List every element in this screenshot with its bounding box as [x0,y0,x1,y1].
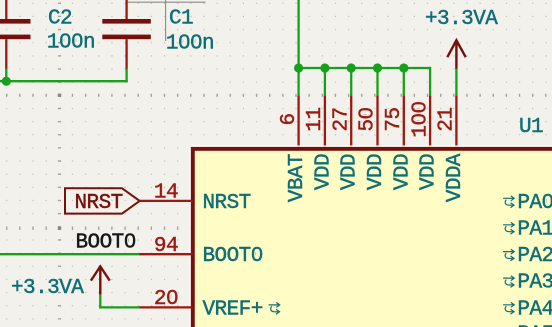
svg-text:VDD: VDD [365,154,388,190]
svg-text:50: 50 [357,107,380,131]
op-amp U1 body [193,149,552,327]
svg-text:20: 20 [154,288,178,311]
pin 6 line [297,96,299,148]
svg-text:75: 75 [383,107,406,131]
svg-text:11: 11 [304,107,327,131]
junction dot at (6.3,81.2) [2,77,11,86]
grid origin square (59.5,95.3) [58,94,61,97]
pin 94 line [139,253,192,255]
svg-text:NRST: NRST [75,192,123,215]
svg-text:VREF+: VREF+ [203,298,263,321]
svg-text:PA3: PA3 [517,272,552,295]
pin 27 line [350,96,352,148]
grid axis tick row y=95.3 [6,94,552,97]
pin VREF+ bidi glyph [269,303,280,315]
pin 100 line [429,96,431,148]
pin 20 line [139,306,192,308]
wire green vertical below C2 [5,69,7,82]
wire green drop pin11 [324,68,326,97]
wire green drop pin6 [297,68,299,97]
junction dot pin50 [373,63,382,72]
svg-text:BOOT0: BOOT0 [203,245,263,268]
svg-text:VDDA: VDDA [444,153,467,202]
global label NRST [65,188,140,215]
svg-text:100n: 100n [166,32,214,55]
grid axis dash column x=59.5 [58,3,61,327]
svg-text:+3.3VA: +3.3VA [11,277,84,300]
wire green VREF+ [99,306,140,308]
svg-text:VDD: VDD [391,154,414,190]
grid origin square (59.5,228.3) [58,227,61,230]
pin 75 line [403,96,405,148]
junction dot pin6 [294,63,303,72]
svg-text:6: 6 [278,113,301,125]
wire green +3.3VA to pin21 [455,69,457,97]
wire green drop pin27 [350,68,352,97]
svg-text:PA1: PA1 [517,218,552,241]
pin PA4 glyph [503,302,514,314]
svg-text:VDD: VDD [339,154,362,190]
svg-text:U1: U1 [519,116,543,139]
wire green vertical below C1 [125,69,127,83]
power symbol +3.3VA top [447,40,465,69]
pin 11 line [324,96,326,148]
wire green drop pin100 [429,67,431,97]
wire green bus horizontal y=68 [299,67,431,69]
svg-text:VDD: VDD [418,154,441,190]
wire green vertical top feed [297,0,299,68]
pin 14 line [139,200,192,202]
svg-text:BOOT0: BOOT0 [76,232,136,255]
power symbol +3.3VA bottom [91,266,110,294]
wire green BOOT0 [0,253,140,255]
pin PA0 glyph [503,196,514,208]
svg-text:PA4: PA4 [517,298,552,321]
wire green drop pin75 [403,68,405,97]
op-amp U1 body halo [193,149,552,327]
pin PA3 glyph [503,276,514,288]
svg-text:14: 14 [154,182,178,205]
svg-text:VDD: VDD [312,154,335,190]
svg-text:94: 94 [154,235,178,258]
junction dot pin27 [347,63,356,72]
svg-text:C1: C1 [169,7,193,30]
wire green vertical below +3.3VA bottom [99,294,101,308]
pin PA2 glyph [503,249,514,261]
svg-text:21: 21 [436,107,459,131]
svg-text:PA0: PA0 [517,192,552,215]
svg-text:100n: 100n [47,32,95,55]
grid axis tick row y=228.3 [6,227,192,230]
pin 50 line [376,96,378,148]
junction dot pin11 [320,63,329,72]
junction dot pin75 [399,63,408,72]
svg-text:+3.3VA: +3.3VA [425,8,498,31]
svg-text:C2: C2 [48,7,72,30]
svg-text:VBAT: VBAT [286,154,309,202]
svg-text:100: 100 [409,101,432,137]
wire green horizontal y=81 [0,80,128,82]
capacitor C2 [0,0,31,70]
svg-text:NRST: NRST [203,192,251,215]
wire green drop pin50 [376,68,378,97]
pin 21 line [455,96,457,148]
svg-text:27: 27 [330,107,353,131]
selection bbox of C1 [127,0,206,41]
pin PA1 glyph [503,222,514,234]
capacitor C1 [102,0,151,70]
svg-text:PA2: PA2 [517,245,552,268]
